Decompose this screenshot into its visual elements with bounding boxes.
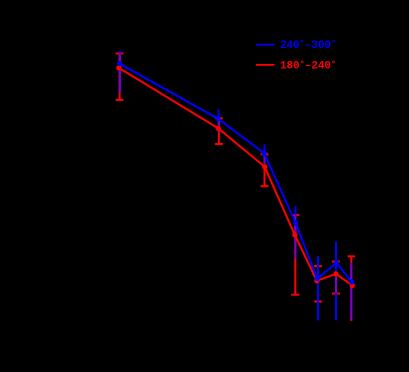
red error bar P3 <box>261 154 269 186</box>
legend blue line <box>256 44 275 46</box>
red error bar P1 <box>116 53 124 100</box>
red markers <box>116 65 355 288</box>
blue error bar P3 <box>263 144 265 164</box>
blue error bar P7 <box>350 263 352 320</box>
blue error bar P1 <box>119 51 121 93</box>
red error bar P5 <box>314 266 322 301</box>
blue error bar P4 <box>295 206 297 258</box>
red error bar P6 <box>332 262 340 294</box>
violet overlap segment P3 <box>264 155 266 164</box>
svg-text:240°–300°: 240°–300° <box>280 39 336 52</box>
blue markers <box>117 61 354 284</box>
blue error bar P6 <box>335 242 337 321</box>
violet overlap segment P1 <box>119 53 121 93</box>
violet overlap segment P6 <box>335 276 337 293</box>
red tip at bottom of P7 bar <box>350 319 352 321</box>
red error bar P7 (clipped at bottom, no bottom cap) <box>348 256 355 320</box>
violet overlap segment P2 <box>218 119 220 133</box>
red error bar P2 <box>215 118 223 144</box>
blue error bar P2 <box>218 110 220 133</box>
legend red line <box>256 64 275 66</box>
red error bar P4 <box>291 215 299 295</box>
violet overlap segment P4 <box>294 215 296 258</box>
red data polyline 180-240 <box>119 68 352 286</box>
blue data polyline 240-300 <box>120 64 352 282</box>
blue error bar P5 <box>317 256 319 321</box>
svg-text:180°–240°: 180°–240° <box>280 60 336 73</box>
violet overlap segment P7 <box>350 263 352 320</box>
